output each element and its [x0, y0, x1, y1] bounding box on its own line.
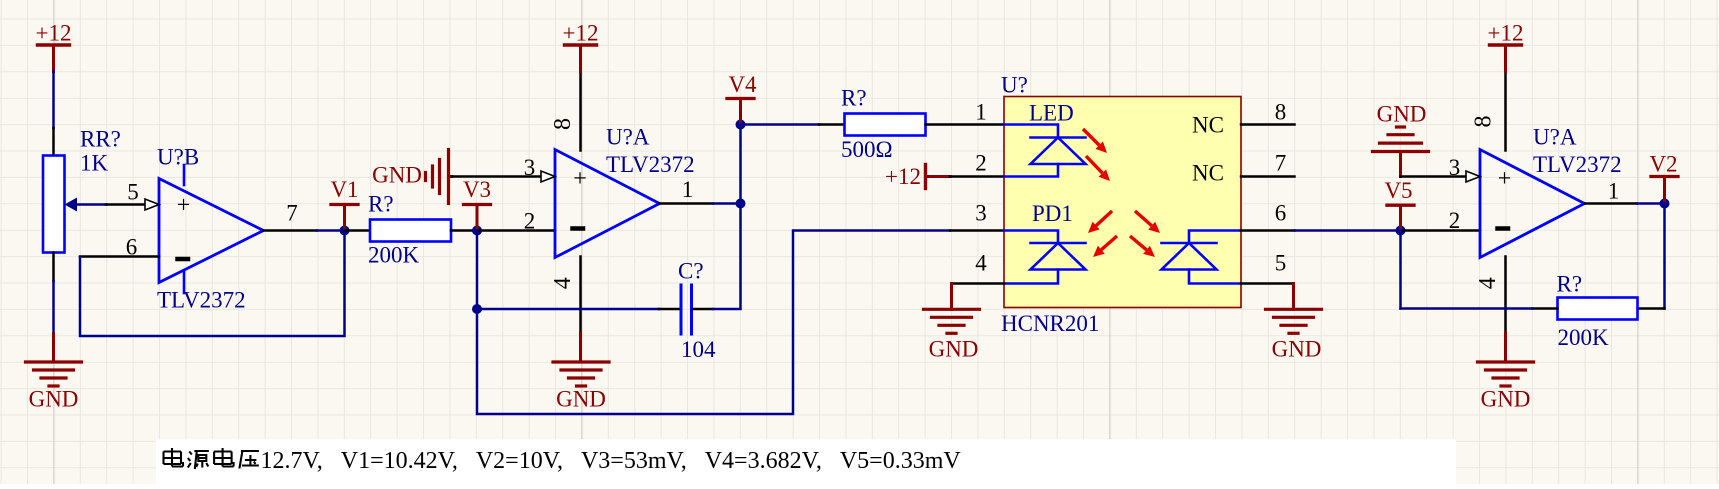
svg-text:R?: R?	[368, 192, 394, 217]
svg-text:500Ω: 500Ω	[841, 137, 893, 162]
svg-text:U?: U?	[1001, 73, 1028, 98]
svg-text:+: +	[1498, 166, 1512, 192]
svg-text:V2: V2	[1649, 152, 1677, 177]
svg-text:R?: R?	[841, 86, 867, 111]
svg-text:+12: +12	[1488, 21, 1524, 46]
svg-text:V5: V5	[1384, 178, 1412, 203]
svg-text:TLV2372: TLV2372	[157, 288, 246, 313]
svg-text:7: 7	[286, 201, 298, 226]
svg-text:8: 8	[550, 118, 576, 130]
svg-text:3: 3	[975, 201, 987, 226]
svg-text:U?A: U?A	[1533, 125, 1577, 150]
svg-text:7: 7	[1275, 151, 1287, 176]
svg-text:1: 1	[682, 177, 694, 202]
svg-text:PD1: PD1	[1032, 201, 1073, 226]
svg-text:4: 4	[550, 277, 576, 289]
svg-text:200K: 200K	[368, 243, 420, 268]
svg-text:+12: +12	[36, 21, 72, 46]
svg-text:U?B: U?B	[157, 145, 199, 170]
svg-text:1: 1	[975, 100, 987, 125]
svg-text:2: 2	[524, 209, 536, 234]
svg-text:5: 5	[1275, 251, 1287, 276]
svg-text:U?A: U?A	[606, 125, 650, 150]
svg-text:V3: V3	[463, 177, 491, 202]
svg-text:3: 3	[524, 155, 536, 180]
svg-text:TLV2372: TLV2372	[606, 152, 695, 177]
svg-text:+: +	[177, 193, 191, 219]
svg-text:8: 8	[1275, 100, 1287, 125]
svg-text:GND: GND	[1377, 102, 1427, 127]
svg-text:+12: +12	[563, 21, 599, 46]
svg-text:GND: GND	[1481, 387, 1531, 412]
svg-text:104: 104	[681, 337, 716, 362]
svg-text:GND: GND	[929, 336, 979, 361]
svg-text:R?: R?	[1557, 272, 1583, 297]
svg-text:TLV2372: TLV2372	[1533, 152, 1622, 177]
svg-text:+: +	[573, 166, 587, 192]
svg-text:4: 4	[1475, 277, 1501, 289]
svg-text:3: 3	[1449, 155, 1461, 180]
svg-text:12.7V, V1=10.42V, V2=10V,: 12.7V, V1=10.42V, V2=10V, V3=53mV, V4=3.…	[261, 448, 962, 474]
svg-text:NC: NC	[1192, 113, 1224, 138]
svg-text:6: 6	[1275, 201, 1287, 226]
svg-text:1K: 1K	[80, 151, 109, 176]
svg-text:GND: GND	[29, 387, 79, 412]
svg-text:LED: LED	[1029, 101, 1074, 126]
svg-text:2: 2	[975, 151, 987, 176]
svg-text:C?: C?	[678, 259, 704, 284]
svg-text:8: 8	[1471, 116, 1497, 128]
svg-text:GND: GND	[372, 163, 422, 188]
svg-text:NC: NC	[1192, 161, 1224, 186]
svg-text:1: 1	[1608, 179, 1620, 204]
svg-text:200K: 200K	[1558, 325, 1610, 350]
svg-text:GND: GND	[1272, 336, 1322, 361]
svg-text:HCNR201: HCNR201	[1001, 311, 1099, 336]
svg-text:GND: GND	[556, 387, 606, 412]
svg-text:V1: V1	[330, 177, 358, 202]
svg-text:RR?: RR?	[80, 127, 121, 152]
svg-text:4: 4	[975, 251, 987, 276]
svg-text:5: 5	[127, 180, 139, 205]
svg-text:+12: +12	[885, 164, 921, 189]
svg-text:2: 2	[1449, 208, 1461, 233]
svg-text:V4: V4	[728, 72, 757, 97]
